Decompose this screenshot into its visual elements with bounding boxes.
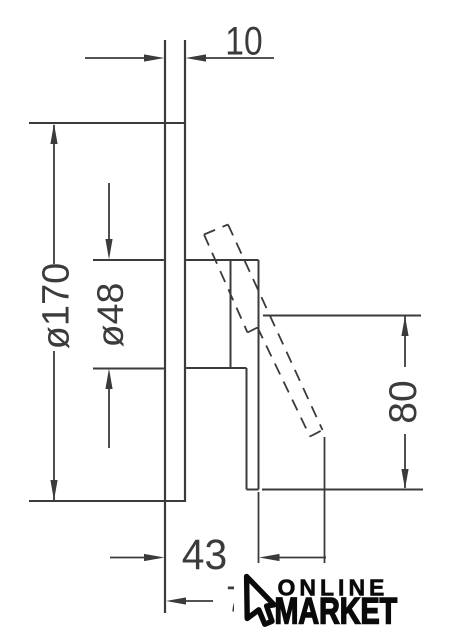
svg-text:10: 10 — [225, 19, 262, 63]
body bottom edge — [247, 489, 259, 491]
svg-text:43: 43 — [182, 530, 227, 578]
extension line ø48 bottom — [93, 368, 164, 370]
dimension 43 — [110, 530, 326, 578]
extension line 80 top — [263, 315, 421, 317]
dimension 80 — [382, 316, 425, 489]
logo cursor icon — [247, 577, 274, 625]
extension line bottom (ø170) — [29, 500, 185, 502]
dashed handle (open position) — [204, 225, 323, 437]
svg-text:ø170: ø170 — [36, 263, 78, 350]
svg-text:MARKET: MARKET — [275, 591, 398, 632]
dimension 75 — [166, 579, 266, 620]
extension line handle tip — [324, 437, 326, 570]
body right edge — [258, 260, 260, 490]
extension line 43 right — [258, 492, 260, 570]
body lower-left edge — [246, 368, 248, 490]
extension line 80 bottom — [262, 489, 423, 491]
dimension ø48 — [89, 183, 131, 448]
logo background — [234, 563, 406, 633]
wall front line — [164, 40, 166, 613]
extension line top (ø170) — [29, 122, 185, 124]
svg-text:80: 80 — [382, 380, 425, 423]
body inner edge — [230, 260, 232, 367]
extension line ø48 top — [93, 259, 164, 261]
body step edge — [186, 367, 246, 369]
dimension ø170 — [36, 124, 78, 501]
dimension 10 — [85, 19, 274, 63]
svg-text:ø48: ø48 — [89, 283, 131, 348]
wall back line — [184, 40, 186, 502]
body top edge — [186, 259, 258, 261]
